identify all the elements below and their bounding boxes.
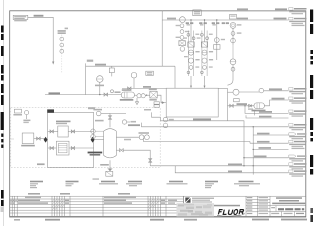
eq label 5: [167, 181, 188, 185]
instrument bubble P1: [97, 76, 104, 83]
branch 143: [249, 142, 251, 144]
boxed tag T1: [193, 10, 201, 16]
stacked tags: [154, 102, 159, 104]
instrument pair R: [229, 15, 241, 45]
left small box: [14, 109, 21, 113]
wire to skid: [34, 138, 45, 140]
opc L: [289, 163, 307, 170]
instrument bubble I1a: [60, 37, 64, 41]
note box N1: [13, 15, 28, 19]
valve V3: [104, 93, 108, 96]
pump PP1: [137, 94, 141, 98]
signature slashes: [52, 199, 160, 210]
note text: [37, 163, 45, 165]
opc D: [289, 97, 307, 104]
drum gauges: [91, 129, 95, 133]
opc E: [289, 110, 307, 117]
filter F0: [22, 133, 34, 144]
drum tag: [88, 152, 103, 154]
vent mark: [254, 111, 256, 116]
opc M: [289, 170, 307, 177]
instrument bubble P2: [131, 72, 137, 78]
skid boundary: [48, 112, 94, 167]
drain funnel D1: [136, 98, 138, 102]
wire skid to drum: [95, 139, 104, 141]
valve VA1: [48, 130, 58, 132]
valve on mid header: [128, 87, 131, 90]
discharge to label: [239, 91, 259, 93]
middle column rows: [247, 197, 268, 214]
left instrument: [25, 111, 29, 115]
package box B: [56, 141, 69, 155]
pump line low: [228, 105, 255, 107]
opc A: [289, 8, 307, 15]
branch 135: [253, 134, 288, 136]
opc K: [289, 155, 307, 162]
branch 149: [253, 148, 288, 150]
cluster text: [95, 85, 104, 87]
pump PA: [233, 89, 239, 95]
level bridle: [163, 117, 168, 122]
table header text: [10, 193, 177, 204]
wire into basin: [157, 95, 166, 102]
train 1 riser: [190, 20, 192, 42]
wire riser x175: [174, 66, 176, 88]
drum drain: [109, 160, 111, 169]
opc H: [289, 133, 307, 140]
long line 1: [152, 112, 245, 166]
stamp speckle: [177, 203, 215, 216]
long line 2: [142, 123, 289, 127]
valve VA2: [68, 130, 93, 132]
boxed tag T2: [146, 71, 154, 75]
opc C: [289, 88, 307, 95]
line label: [34, 15, 44, 17]
instrument stack L: [180, 17, 186, 23]
eq label 4: [126, 181, 142, 187]
right edge black marks: [310, 10, 313, 223]
train 3 symbols: [212, 24, 225, 49]
paper left edge: [3, 0, 5, 226]
long line 3: [144, 138, 251, 141]
left edge black marks: [1, 26, 4, 207]
exchanger HX1: [150, 91, 157, 98]
train 1 symbols: [183, 24, 199, 88]
skid tag: [47, 109, 54, 112]
branch 172: [175, 166, 288, 173]
eq label 6: [205, 181, 218, 189]
opc I: [289, 140, 307, 149]
border frame: [10, 11, 306, 217]
arrow A1: [52, 62, 54, 65]
branch 157: [244, 157, 289, 159]
drum outlet: [116, 149, 119, 151]
eq label 1: [30, 181, 43, 189]
instrument bubble I1b: [60, 43, 64, 47]
FLUOR wordmark: [218, 210, 244, 215]
drain box: [106, 171, 113, 176]
wire mid header: [122, 87, 166, 89]
valve box V2: [109, 68, 114, 73]
eq label 3: [99, 181, 118, 185]
wire instrument drop: [232, 45, 234, 59]
instrument bubble mid: [122, 120, 126, 124]
equipment label row: [30, 178, 260, 188]
wire to label D: [264, 100, 288, 106]
title block: [184, 196, 306, 216]
dashed boundary tick: [11, 138, 14, 140]
drum top piping: [110, 114, 126, 128]
specialty diamond SP2: [91, 137, 95, 143]
eq label 2: [66, 181, 79, 187]
unit boundary dashed: [11, 108, 160, 168]
title text block: [271, 197, 305, 214]
process line main: [45, 94, 121, 96]
right web riser: [252, 127, 254, 175]
train 2 symbols: [197, 24, 213, 88]
wire header B: [162, 19, 288, 21]
logo cell contents: [185, 198, 244, 217]
wire from note box: [28, 17, 53, 62]
branch 118: [246, 115, 289, 118]
instrument bubble I1c: [60, 49, 64, 53]
below border texts: [1, 207, 308, 221]
drum V1: [104, 129, 117, 158]
drum level instruments: [116, 136, 139, 138]
opc B: [289, 17, 307, 26]
valve VB1: [48, 147, 57, 149]
instrument bubble PU: [230, 59, 236, 65]
opc G: [289, 124, 307, 131]
relief header: [85, 63, 87, 94]
package box A: [58, 126, 68, 137]
pump PB: [254, 103, 264, 109]
basin B1: [166, 88, 218, 117]
wire header top A: [194, 10, 290, 12]
train 3 riser: [216, 20, 218, 60]
specialty diamond SP1: [44, 137, 48, 143]
right off-page connector labels: [289, 8, 307, 177]
revision table: [10, 196, 184, 216]
tick row under header: [186, 23, 229, 24]
train 2 riser: [204, 20, 206, 42]
horizontal vessel ME1: [121, 92, 134, 98]
instrument chain I1: [65, 28, 68, 30]
small text near basin: [144, 109, 151, 111]
wire to label E: [245, 106, 289, 114]
wire riser left: [161, 11, 163, 66]
valve VB2: [69, 147, 94, 149]
branch 165: [150, 165, 288, 167]
eq label 7: [234, 181, 260, 187]
pump suction riser: [227, 88, 229, 120]
